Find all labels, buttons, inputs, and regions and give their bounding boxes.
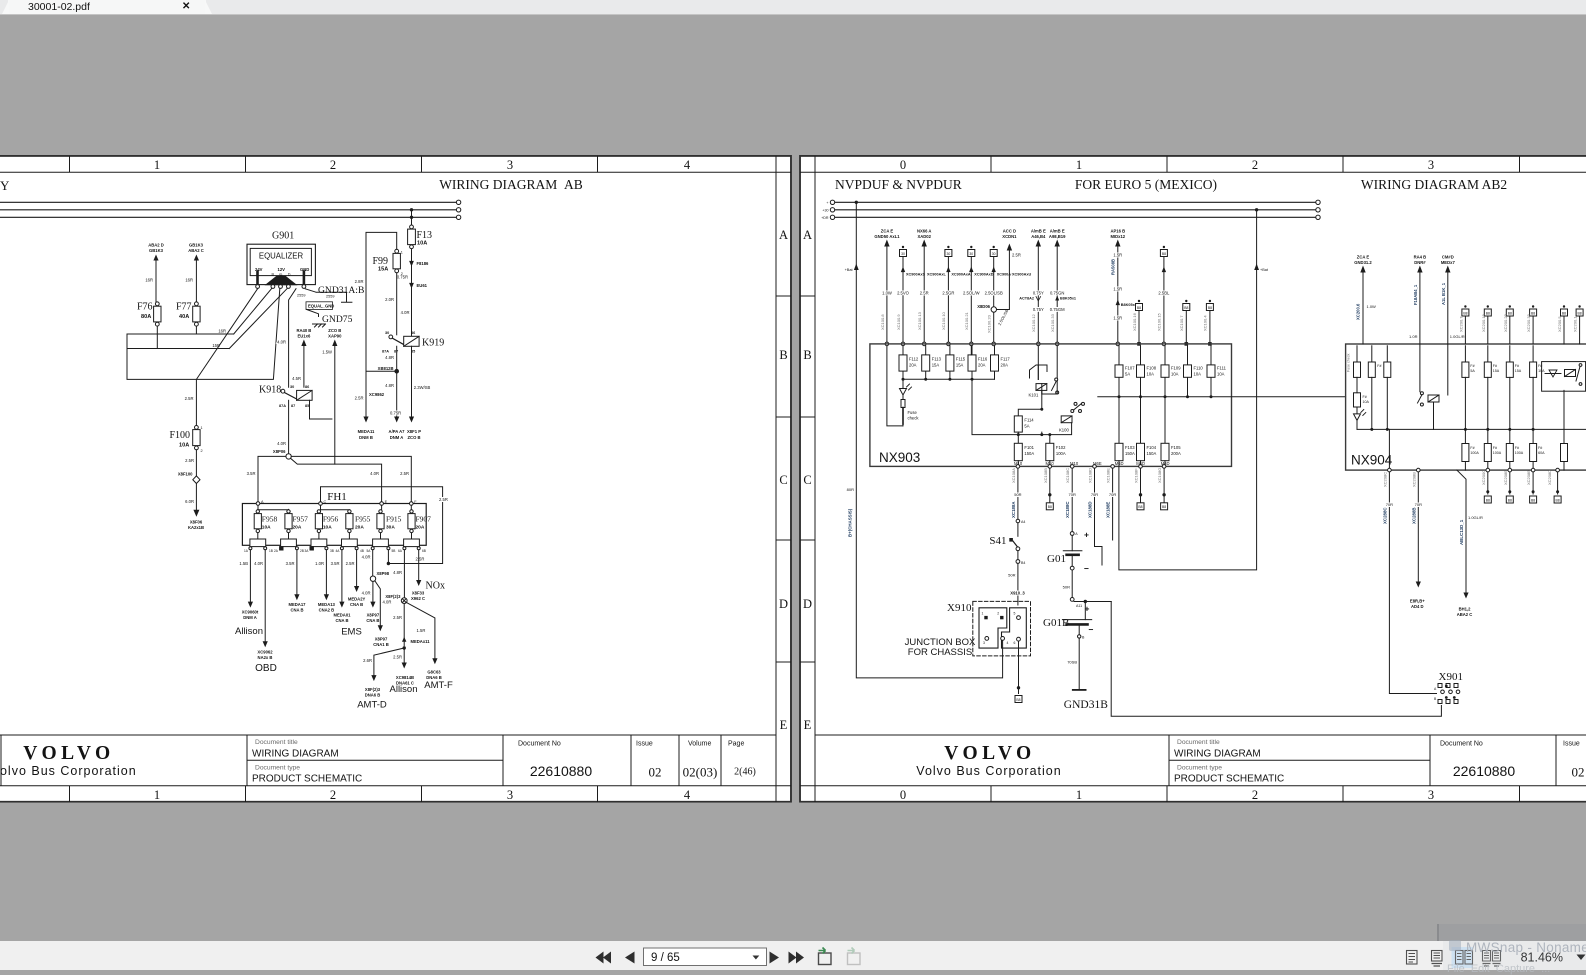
svg-text:16R: 16R bbox=[145, 278, 153, 283]
svg-text:K101: K101 bbox=[1029, 393, 1039, 398]
svg-text:F#: F# bbox=[1470, 364, 1474, 368]
svg-text:1.0W: 1.0W bbox=[1367, 304, 1377, 309]
connector 30 column X8D06 bbox=[977, 246, 1016, 346]
svg-text:B8: B8 bbox=[1016, 698, 1020, 702]
svg-text:5A: 5A bbox=[1024, 424, 1029, 429]
svg-text:XC208C: XC208C bbox=[1382, 472, 1387, 487]
svg-text:XC100.33: XC100.33 bbox=[1050, 313, 1055, 332]
svg-text:15A: 15A bbox=[378, 267, 388, 273]
svg-text:B8K05x2: B8K05x2 bbox=[1121, 303, 1137, 307]
svg-text:30A: 30A bbox=[386, 525, 395, 531]
svg-text:Issue: Issue bbox=[1563, 741, 1580, 748]
svg-text:B8: B8 bbox=[1531, 311, 1535, 315]
svg-text:F101: F101 bbox=[1024, 445, 1034, 450]
node ZCA E NX904 input bbox=[1354, 255, 1376, 345]
svg-text:XC900AxA: XC900AxA bbox=[951, 273, 970, 277]
ground GND31B bbox=[1064, 638, 1108, 711]
svg-text:CNA1 B: CNA1 B bbox=[373, 642, 389, 647]
svg-text:100A: 100A bbox=[1493, 451, 1502, 455]
fuse F915 bbox=[377, 510, 402, 533]
svg-text:G901: G901 bbox=[272, 231, 294, 242]
svg-text:XC108A: XC108A bbox=[1011, 468, 1016, 483]
connector B8 column XC200.33 bbox=[1526, 305, 1537, 344]
frame bottom band bbox=[0, 786, 791, 802]
svg-text:XCDN1: XCDN1 bbox=[1002, 234, 1017, 239]
svg-text:6.0R: 6.0R bbox=[185, 499, 194, 504]
svg-text:NA2x B: NA2x B bbox=[258, 655, 273, 660]
svg-text:Volvo Bus Corporation: Volvo Bus Corporation bbox=[0, 764, 137, 778]
svg-text:3.5R: 3.5R bbox=[286, 561, 295, 566]
svg-text:A/PA A7: A/PA A7 bbox=[389, 429, 406, 434]
svg-text:3: 3 bbox=[1428, 158, 1434, 172]
svg-text:Y: Y bbox=[0, 178, 10, 193]
svg-text:DNM A: DNM A bbox=[390, 435, 404, 440]
svg-text:XC188D: XC188D bbox=[1088, 501, 1093, 518]
svg-text:F117: F117 bbox=[1001, 357, 1011, 362]
svg-text:10A: 10A bbox=[1217, 372, 1225, 377]
svg-text:PRODUCT SCHEMATIC: PRODUCT SCHEMATIC bbox=[1174, 774, 1284, 785]
svg-text:XC100.13: XC100.13 bbox=[917, 311, 922, 330]
connector B8 column XC200.20 bbox=[1503, 305, 1514, 344]
frame top band right page bbox=[800, 156, 1586, 172]
svg-text:15A: 15A bbox=[932, 363, 940, 368]
svg-text:ABA2 D: ABA2 D bbox=[148, 243, 164, 248]
svg-text:2.5R: 2.5R bbox=[346, 561, 355, 566]
svg-text:2.5R: 2.5R bbox=[1012, 253, 1021, 258]
svg-text:XC108G: XC108G bbox=[1157, 468, 1162, 483]
svg-text:Document No: Document No bbox=[1440, 741, 1483, 748]
svg-text:XC200.20: XC200.20 bbox=[1503, 313, 1508, 332]
svg-text:4.0R: 4.0R bbox=[254, 561, 263, 566]
title block texts bbox=[252, 739, 744, 785]
svg-text:X910: X910 bbox=[947, 602, 972, 614]
svg-text:30: 30 bbox=[992, 252, 996, 256]
svg-text:30: 30 bbox=[901, 252, 905, 256]
svg-text:150A: 150A bbox=[1024, 451, 1034, 456]
prev page button bbox=[625, 952, 635, 964]
wire X8F23 to AMT-F bbox=[407, 603, 453, 691]
svg-text:X8P97: X8P97 bbox=[375, 637, 388, 642]
view single page icon bbox=[1407, 951, 1418, 965]
svg-text:2B: 2B bbox=[300, 549, 304, 553]
svg-text:K919: K919 bbox=[422, 338, 444, 349]
svg-text:GND31B: GND31B bbox=[1064, 699, 1108, 711]
svg-text:20A: 20A bbox=[1001, 363, 1009, 368]
svg-text:XC188A: XC188A bbox=[1011, 501, 1016, 518]
fuse F102 bbox=[1046, 433, 1066, 466]
svg-text:1.5R: 1.5R bbox=[1113, 287, 1122, 292]
svg-text:ABLC13D_1: ABLC13D_1 bbox=[1459, 519, 1464, 545]
wire FH1 2B MEDA17 bbox=[286, 550, 307, 613]
svg-text:2: 2 bbox=[201, 449, 203, 453]
svg-text:XC9862: XC9862 bbox=[369, 392, 385, 397]
svg-text:10A: 10A bbox=[417, 241, 427, 247]
wire +30 right vertical to NX903 bbox=[1119, 208, 1269, 570]
svg-text:B8: B8 bbox=[1162, 505, 1166, 509]
svg-text:2.8R: 2.8R bbox=[355, 279, 364, 284]
svg-text:1.5R: 1.5R bbox=[417, 628, 426, 633]
svg-text:F108: F108 bbox=[1147, 366, 1157, 371]
node GB1K3 arrow bbox=[185, 243, 203, 302]
node X8F1P label bbox=[407, 429, 421, 440]
title block frame right page bbox=[815, 735, 1586, 786]
svg-text:2.5OL/SB: 2.5OL/SB bbox=[985, 291, 1003, 296]
node bus terminals left bbox=[830, 200, 834, 219]
RIGHT PAGE bbox=[799, 155, 1586, 803]
svg-text:150A: 150A bbox=[1147, 451, 1157, 456]
svg-text:EU61: EU61 bbox=[417, 283, 428, 288]
svg-text:6: 6 bbox=[1014, 641, 1016, 645]
svg-text:30: 30 bbox=[290, 385, 294, 389]
svg-text:F13: F13 bbox=[417, 230, 433, 241]
node RA4B NX904 input bbox=[1409, 255, 1426, 345]
svg-text:+: + bbox=[826, 201, 828, 205]
svg-text:20A: 20A bbox=[416, 525, 425, 531]
svg-text:XC100.4: XC100.4 bbox=[1203, 315, 1208, 331]
svg-text:100A: 100A bbox=[1515, 451, 1524, 455]
svg-text:F113: F113 bbox=[932, 357, 942, 362]
svg-text:XC100.7: XC100.7 bbox=[1179, 315, 1184, 331]
svg-text:K918: K918 bbox=[259, 385, 281, 396]
svg-text:80A: 80A bbox=[141, 314, 151, 320]
wire column XC108D bbox=[1088, 465, 1103, 565]
connector 30 column XC900AxD bbox=[963, 246, 994, 346]
relay NX904 left bbox=[1389, 344, 1447, 468]
wire XC208B arrow bbox=[1410, 468, 1425, 609]
wire G901 pin E to K918 bbox=[277, 289, 296, 388]
svg-text:F103: F103 bbox=[1125, 445, 1135, 450]
svg-text:XC208B: XC208B bbox=[1526, 470, 1531, 485]
facing-mode highlight bbox=[1452, 947, 1474, 968]
node bus end terminals bbox=[456, 200, 460, 219]
svg-text:OBD: OBD bbox=[255, 663, 277, 674]
svg-text:E: E bbox=[780, 718, 788, 732]
svg-text:B8K05x1: B8K05x1 bbox=[1060, 297, 1076, 301]
node ZCA E input bbox=[874, 229, 902, 426]
relay NX904 right bbox=[1542, 362, 1586, 392]
fuse F907 bbox=[408, 510, 431, 533]
svg-text:1: 1 bbox=[1076, 158, 1082, 172]
svg-text:GND75: GND75 bbox=[322, 314, 353, 325]
svg-text:3: 3 bbox=[1428, 788, 1434, 802]
svg-text:4.0R: 4.0R bbox=[277, 441, 286, 446]
tab bar bbox=[0, 0, 1586, 15]
connector X8F23 bbox=[385, 550, 407, 604]
svg-text:4.0R: 4.0R bbox=[370, 471, 379, 476]
node NX66 A input bbox=[917, 229, 947, 346]
wire F99 to K919 bbox=[385, 273, 397, 335]
svg-text:F#: F# bbox=[1377, 364, 1381, 368]
svg-text:DNA6 B: DNA6 B bbox=[365, 693, 381, 698]
svg-text:K100: K100 bbox=[1059, 428, 1069, 433]
svg-text:CNA B: CNA B bbox=[335, 618, 348, 623]
svg-text:2.5R: 2.5R bbox=[393, 655, 402, 660]
connector B8 column XC100.4 bbox=[1203, 300, 1214, 346]
wire power bus lines right page bbox=[835, 202, 1316, 217]
svg-text:15A: 15A bbox=[1515, 369, 1522, 373]
next page button bbox=[770, 952, 780, 964]
svg-text:A1L B1K_1: A1L B1K_1 bbox=[1441, 282, 1446, 305]
svg-text:30: 30 bbox=[385, 331, 389, 335]
svg-text:3: 3 bbox=[983, 641, 985, 645]
node RA40B arrow bbox=[292, 328, 311, 387]
svg-text:WIRING DIAGRAM: WIRING DIAGRAM bbox=[252, 749, 339, 760]
wire F13 to K919 bbox=[397, 249, 429, 336]
svg-text:2: 2 bbox=[330, 788, 336, 802]
frame inner vertical bbox=[776, 156, 791, 802]
svg-text:70R: 70R bbox=[1069, 492, 1076, 497]
svg-text:XC9814B: XC9814B bbox=[396, 675, 414, 680]
svg-text:4.5R: 4.5R bbox=[292, 376, 301, 381]
junction box X910 bbox=[905, 601, 1031, 658]
node APAA7 label bbox=[389, 429, 406, 440]
MWSnap ghost window remnant bbox=[1437, 924, 1586, 941]
svg-text:XC900AxL: XC900AxL bbox=[927, 273, 946, 277]
svg-text:B8: B8 bbox=[1486, 311, 1490, 315]
svg-text:1: 1 bbox=[982, 612, 984, 616]
svg-text:4.0R: 4.0R bbox=[277, 340, 286, 345]
svg-text:2: 2 bbox=[997, 612, 999, 616]
fuse F100 bbox=[169, 426, 202, 454]
svg-text:GND31.2: GND31.2 bbox=[1354, 260, 1372, 265]
svg-text:AMT-D: AMT-D bbox=[357, 700, 387, 711]
svg-text:2(46): 2(46) bbox=[734, 767, 756, 778]
node AmB E A98 input bbox=[1049, 229, 1076, 346]
svg-text:50R: 50R bbox=[1008, 573, 1015, 578]
wire XC208C to X901 bbox=[1382, 468, 1436, 693]
title block frame bbox=[0, 735, 776, 786]
wire FH1 1B to OBD bbox=[254, 550, 277, 674]
layout button 1 bbox=[819, 948, 832, 965]
svg-text:C: C bbox=[324, 500, 327, 504]
svg-text:ZCO B: ZCO B bbox=[328, 328, 341, 333]
connector B8 column XC100.16 bbox=[1132, 300, 1143, 346]
svg-text:F109: F109 bbox=[1171, 366, 1181, 371]
svg-text:+30: +30 bbox=[822, 208, 828, 212]
svg-text:4.0R: 4.0R bbox=[383, 600, 392, 605]
view continuous icon bbox=[1432, 951, 1443, 967]
svg-text:2.5R: 2.5R bbox=[355, 396, 364, 401]
svg-text:CNA B: CNA B bbox=[366, 618, 379, 623]
svg-text:0: 0 bbox=[900, 158, 906, 172]
svg-text:XC100.8: XC100.8 bbox=[880, 314, 885, 330]
svg-text:F957: F957 bbox=[293, 515, 309, 524]
fuse F956 bbox=[315, 510, 338, 533]
fuse NX904 check bbox=[1354, 377, 1370, 429]
svg-text:70R: 70R bbox=[1109, 492, 1116, 497]
fuse F116 bbox=[968, 346, 988, 380]
svg-text:A/mB E: A/mB E bbox=[1031, 229, 1046, 234]
node CM#D NX904 input bbox=[1441, 255, 1465, 345]
connector X901 bbox=[1434, 671, 1463, 704]
svg-text:F18AB4_1: F18AB4_1 bbox=[1413, 284, 1418, 305]
svg-text:+Bat: +Bat bbox=[845, 268, 854, 272]
svg-text:85: 85 bbox=[305, 404, 309, 408]
svg-text:CNA B: CNA B bbox=[350, 602, 363, 607]
svg-text:AMT-F: AMT-F bbox=[424, 680, 453, 691]
svg-text:ZCA E: ZCA E bbox=[881, 229, 894, 234]
svg-text:FOR EURO 5 (MEXICO): FOR EURO 5 (MEXICO) bbox=[1075, 177, 1217, 192]
svg-text:BH1,2: BH1,2 bbox=[1459, 607, 1472, 612]
svg-text:2.5GR: 2.5GR bbox=[942, 291, 954, 296]
svg-text:10A: 10A bbox=[1363, 400, 1370, 404]
svg-text:F116: F116 bbox=[978, 357, 988, 362]
connector B8 column XC100.7 bbox=[1179, 300, 1190, 346]
fuse F13 bbox=[408, 225, 432, 249]
svg-text:D: D bbox=[288, 272, 291, 276]
svg-text:XAD02: XAD02 bbox=[917, 234, 931, 239]
wire column XC108E bbox=[1106, 465, 1117, 540]
svg-text:16R: 16R bbox=[218, 329, 226, 334]
fuse F109 bbox=[1161, 346, 1181, 397]
svg-text:20A: 20A bbox=[293, 525, 302, 531]
svg-text:2: 2 bbox=[1252, 158, 1258, 172]
svg-text:XC900AxS: XC900AxS bbox=[906, 273, 925, 277]
svg-text:2.5R: 2.5R bbox=[920, 291, 929, 296]
svg-text:G01: G01 bbox=[1047, 553, 1066, 565]
svg-text:check: check bbox=[908, 416, 920, 421]
wire X8P06 to FH1 pin F bbox=[291, 456, 411, 501]
junction X8P98 bbox=[362, 550, 390, 582]
svg-text:40A: 40A bbox=[179, 314, 189, 320]
svg-text:10A: 10A bbox=[1147, 372, 1155, 377]
svg-text:F#: F# bbox=[1493, 364, 1497, 368]
svg-text:XC108E: XC108E bbox=[1106, 468, 1111, 483]
node bus terminals right bbox=[1316, 200, 1320, 219]
svg-text:X910_3: X910_3 bbox=[1010, 591, 1025, 596]
svg-text:70R: 70R bbox=[1415, 502, 1422, 507]
svg-text:XAP90: XAP90 bbox=[328, 333, 342, 338]
svg-text:1.0R: 1.0R bbox=[315, 561, 324, 566]
svg-text:B8: B8 bbox=[1486, 498, 1490, 502]
svg-text:Allison: Allison bbox=[390, 684, 418, 695]
switch S41 bbox=[989, 523, 1025, 605]
svg-text:30: 30 bbox=[947, 252, 951, 256]
fuse F110 bbox=[1184, 346, 1204, 397]
svg-text:A/mB E: A/mB E bbox=[1050, 229, 1065, 234]
svg-text:B8: B8 bbox=[1184, 306, 1188, 310]
frame inner vertical right page bbox=[800, 156, 815, 802]
svg-text:F#: F# bbox=[1470, 446, 1474, 450]
svg-text:MEDA13: MEDA13 bbox=[318, 602, 336, 607]
svg-text:70R: 70R bbox=[1091, 492, 1098, 497]
fuse F114 bbox=[1014, 416, 1034, 432]
svg-text:GND31A:B: GND31A:B bbox=[318, 285, 364, 296]
svg-text:CNA B: CNA B bbox=[290, 608, 303, 613]
svg-text:1.5W: 1.5W bbox=[322, 350, 332, 355]
battery G01 bbox=[1047, 530, 1089, 598]
svg-text:XC288B: XC288B bbox=[1411, 507, 1416, 524]
wire F99 top loop bbox=[355, 232, 397, 371]
svg-text:WIRING DIAGRAM AB2: WIRING DIAGRAM AB2 bbox=[1361, 177, 1507, 192]
svg-text:MEDAx11: MEDAx11 bbox=[411, 639, 431, 644]
wire power bus lines bbox=[0, 202, 456, 217]
fuse F105 bbox=[1161, 397, 1181, 467]
wire NX904 internal bus bbox=[1357, 377, 1586, 431]
svg-text:Issue: Issue bbox=[636, 741, 653, 748]
svg-text:1: 1 bbox=[154, 788, 160, 802]
svg-text:G01B: G01B bbox=[1043, 617, 1069, 629]
connector B8 column XC200.1 bbox=[1573, 305, 1584, 344]
svg-text:WIRING DIAGRAM: WIRING DIAGRAM bbox=[1174, 749, 1261, 760]
svg-text:XB812B: XB812B bbox=[378, 366, 394, 371]
wire X8P98 right branch bbox=[373, 581, 391, 647]
svg-text:XC9062: XC9062 bbox=[257, 650, 273, 655]
svg-text:F907: F907 bbox=[416, 515, 432, 524]
connector B8 column XC200.19 bbox=[1481, 305, 1492, 344]
svg-text:60A: 60A bbox=[1538, 451, 1545, 455]
svg-text:100A: 100A bbox=[1056, 451, 1066, 456]
wire battery to X901 bbox=[1111, 602, 1441, 717]
title block texts right page bbox=[1174, 739, 1580, 785]
svg-text:10A: 10A bbox=[323, 525, 332, 531]
connector 30 column XC900AxS bbox=[896, 246, 926, 346]
fuse F108 bbox=[1137, 346, 1157, 397]
svg-text:5A: 5A bbox=[1470, 369, 1475, 373]
svg-text:5: 5 bbox=[1014, 612, 1016, 616]
LED fuse check bbox=[900, 379, 920, 426]
svg-text:B: B bbox=[779, 348, 787, 362]
net bus labels bbox=[821, 201, 829, 220]
svg-text:F115: F115 bbox=[956, 357, 966, 362]
connector B8 column XC100.15 bbox=[1157, 246, 1170, 346]
svg-text:−: − bbox=[1084, 564, 1089, 574]
svg-text:02(03): 02(03) bbox=[683, 765, 718, 780]
svg-text:2.0R: 2.0R bbox=[385, 297, 394, 302]
svg-text:2.5R: 2.5R bbox=[416, 557, 425, 562]
svg-text:B8: B8 bbox=[1531, 498, 1535, 502]
svg-text:1.5B: 1.5B bbox=[239, 561, 248, 566]
svg-text:MEDx7: MEDx7 bbox=[1441, 260, 1456, 265]
svg-text:RA508B: RA508B bbox=[1111, 259, 1116, 275]
svg-text:F77: F77 bbox=[176, 302, 192, 313]
svg-text:1: 1 bbox=[201, 426, 203, 430]
svg-text:F107: F107 bbox=[1125, 366, 1135, 371]
svg-text:X8P97: X8P97 bbox=[367, 613, 380, 618]
svg-text:10A: 10A bbox=[179, 443, 189, 449]
svg-text:ABA2 C: ABA2 C bbox=[188, 248, 204, 253]
svg-text:B: B bbox=[803, 348, 811, 362]
svg-text:E: E bbox=[385, 500, 388, 504]
svg-text:20A: 20A bbox=[978, 363, 986, 368]
svg-text:XC108C: XC108C bbox=[1065, 468, 1070, 483]
component box NX904 bbox=[1346, 344, 1586, 470]
svg-text:MEDA11: MEDA11 bbox=[358, 429, 375, 434]
svg-text:B8: B8 bbox=[1562, 311, 1566, 315]
fuse F113 bbox=[922, 346, 942, 380]
svg-text:B8: B8 bbox=[1162, 252, 1166, 256]
svg-text:10A: 10A bbox=[1194, 372, 1202, 377]
svg-text:XC200.7: XC200.7 bbox=[1458, 316, 1463, 332]
svg-text:XC100.9: XC100.9 bbox=[896, 314, 901, 330]
fuse F117 bbox=[991, 346, 1011, 380]
svg-text:XC200.5: XC200.5 bbox=[1557, 316, 1562, 332]
svg-text:4B: 4B bbox=[360, 549, 364, 553]
svg-text:F#: F# bbox=[1515, 364, 1519, 368]
svg-text:4.8R: 4.8R bbox=[385, 383, 394, 388]
svg-text:B8: B8 bbox=[1137, 306, 1141, 310]
view book icon bbox=[1483, 951, 1501, 967]
connector 30 column XC900AxA bbox=[941, 246, 971, 346]
svg-text:F#: F# bbox=[1363, 395, 1367, 399]
wire ABLC13D arrow bbox=[1457, 470, 1483, 617]
svg-text:2: 2 bbox=[1252, 788, 1258, 802]
junction XB812B bbox=[366, 346, 399, 373]
wire bus to F13 bbox=[411, 210, 413, 225]
svg-text:F104: F104 bbox=[1147, 445, 1157, 450]
wire X8F100 down arrow bbox=[185, 484, 204, 531]
svg-text:9 / 65: 9 / 65 bbox=[651, 952, 680, 964]
